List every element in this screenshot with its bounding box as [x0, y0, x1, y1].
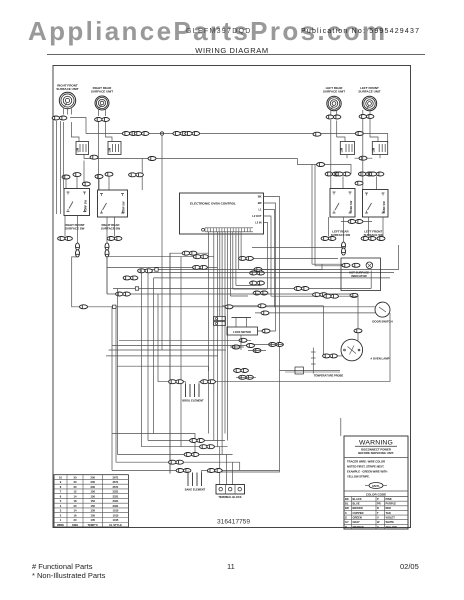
svg-text:BLUE: BLUE [353, 502, 360, 506]
svg-text:30: 30 [74, 475, 77, 479]
svg-text:SURFACE UNIT: SURFACE UNIT [323, 90, 345, 94]
svg-text:ORANGE: ORANGE [353, 525, 365, 529]
svg-text:C: C [345, 511, 347, 515]
svg-text:10: 10 [59, 475, 62, 479]
svg-text:3671: 3671 [112, 475, 118, 479]
svg-text:INDICATOR: INDICATOR [351, 274, 366, 278]
svg-text:8: 8 [60, 485, 62, 489]
svg-text:150: 150 [91, 490, 96, 494]
svg-text:105: 105 [91, 509, 96, 513]
svg-text:NOTED FIRST, STRIPE NEXT.: NOTED FIRST, STRIPE NEXT. [347, 465, 384, 469]
svg-text:O: O [345, 525, 347, 529]
svg-text:BK: BK [258, 195, 262, 199]
svg-text:GY: GY [345, 520, 349, 524]
svg-text:PINK: PINK [386, 497, 392, 501]
svg-text:9: 9 [60, 480, 62, 484]
svg-text:TEMP°C: TEMP°C [88, 523, 99, 527]
svg-text:WARNING: WARNING [359, 440, 393, 447]
svg-text:3321: 3321 [112, 499, 118, 503]
svg-text:1015: 1015 [112, 518, 118, 522]
svg-text:PURPLE: PURPLE [386, 502, 397, 506]
svg-text:BROWN: BROWN [353, 506, 363, 510]
svg-text:L1: L1 [258, 208, 262, 212]
svg-text:TERMINAL BLOCK: TERMINAL BLOCK [218, 495, 241, 499]
svg-text:BR: BR [345, 506, 349, 510]
svg-text:L2 OUT: L2 OUT [252, 214, 262, 218]
svg-text:TEMPERATURE PROBE: TEMPERATURE PROBE [314, 374, 344, 378]
svg-text:SURFACE UNIT: SURFACE UNIT [91, 90, 113, 94]
svg-text:SURFACE SW: SURFACE SW [101, 227, 121, 231]
svg-text:16: 16 [74, 513, 77, 517]
svg-text:3671: 3671 [112, 485, 118, 489]
svg-text:SURFACE SW: SURFACE SW [65, 227, 85, 231]
svg-text:UL STYLE: UL STYLE [109, 523, 122, 527]
svg-text:V: V [377, 516, 379, 520]
svg-text:G: G [345, 516, 347, 520]
svg-text:GN/YL: GN/YL [372, 484, 380, 488]
svg-text:GRAY: GRAY [353, 520, 361, 524]
svg-text:Y: Y [377, 525, 379, 529]
svg-text:20: 20 [74, 504, 77, 508]
svg-text:30: 30 [74, 480, 77, 484]
svg-text:200: 200 [91, 475, 96, 479]
svg-text:3321: 3321 [112, 504, 118, 508]
svg-text:30: 30 [74, 485, 77, 489]
svg-text:COLOR CODE: COLOR CODE [366, 492, 386, 496]
svg-text:R: R [377, 506, 379, 510]
svg-text:3321: 3321 [112, 494, 118, 498]
svg-text:3321: 3321 [112, 490, 118, 494]
svg-text:6: 6 [60, 494, 62, 498]
svg-text:SURF SW: SURF SW [122, 201, 126, 214]
svg-text:SURFACE UNIT: SURFACE UNIT [56, 87, 78, 91]
svg-text:12: 12 [74, 490, 77, 494]
svg-text:TAN: TAN [386, 511, 391, 515]
svg-text:SURF SW: SURF SW [349, 200, 353, 213]
svg-text:150: 150 [91, 504, 96, 508]
svg-text:4: 4 [60, 504, 62, 508]
svg-text:1015: 1015 [112, 509, 118, 513]
svg-text:# OVEN LAMP: # OVEN LAMP [371, 357, 390, 361]
svg-text:150: 150 [91, 499, 96, 503]
svg-text:LIM: LIM [107, 148, 111, 152]
svg-text:AWG: AWG [72, 523, 78, 527]
svg-text:SURF SW: SURF SW [382, 201, 386, 214]
svg-text:105: 105 [91, 518, 96, 522]
svg-text:SURFACE UNIT: SURFACE UNIT [358, 90, 380, 94]
svg-text:20: 20 [74, 518, 77, 522]
svg-text:EXAMPLE - GREEN WIRE WITH: EXAMPLE - GREEN WIRE WITH [347, 470, 387, 474]
svg-text:RED: RED [386, 506, 392, 510]
svg-text:PR: PR [377, 502, 381, 506]
svg-text:18: 18 [74, 499, 77, 503]
svg-text:TRACER WIRE: WIRE COLOR: TRACER WIRE: WIRE COLOR [347, 460, 385, 464]
svg-text:3671: 3671 [112, 480, 118, 484]
svg-text:WHITE: WHITE [386, 520, 395, 524]
svg-text:3: 3 [60, 509, 62, 513]
svg-text:LIM: LIM [75, 148, 79, 152]
svg-text:WIRE: WIRE [57, 523, 64, 527]
svg-text:BLACK: BLACK [353, 497, 362, 501]
svg-text:14: 14 [74, 509, 77, 513]
svg-text:YELLOW STRIPE.: YELLOW STRIPE. [347, 475, 370, 479]
svg-text:150: 150 [91, 494, 96, 498]
svg-text:ELECTRONIC OVEN CONTROL: ELECTRONIC OVEN CONTROL [190, 202, 236, 206]
svg-text:P: P [377, 497, 379, 501]
svg-text:BAKE ELEMENT: BAKE ELEMENT [185, 488, 206, 492]
svg-text:316417759: 316417759 [217, 518, 250, 525]
svg-text:L2 IN: L2 IN [255, 221, 261, 225]
svg-text:105: 105 [91, 513, 96, 517]
svg-text:7: 7 [60, 490, 62, 494]
svg-text:SURF SW: SURF SW [84, 199, 88, 212]
svg-text:BROIL ELEMENT: BROIL ELEMENT [182, 399, 204, 403]
svg-text:14: 14 [74, 494, 77, 498]
svg-text:LIM: LIM [340, 148, 344, 152]
svg-text:W: W [377, 520, 380, 524]
svg-text:GREEN: GREEN [353, 516, 362, 520]
svg-text:5: 5 [60, 499, 62, 503]
svg-text:BR: BR [258, 201, 262, 205]
svg-text:T: T [377, 511, 379, 515]
svg-text:VIOLET: VIOLET [386, 516, 396, 520]
svg-text:200: 200 [91, 485, 96, 489]
svg-text:BK: BK [345, 497, 349, 501]
svg-text:2: 2 [60, 513, 62, 517]
svg-text:DOOR SWITCH: DOOR SWITCH [372, 319, 392, 323]
svg-text:BL: BL [345, 502, 349, 506]
svg-text:1015: 1015 [112, 513, 118, 517]
svg-text:BEFORE SERVICING UNIT.: BEFORE SERVICING UNIT. [358, 451, 394, 455]
svg-text:YELLOW: YELLOW [386, 525, 398, 529]
svg-text:LOCK MOTOR: LOCK MOTOR [233, 330, 251, 334]
svg-text:200: 200 [91, 480, 96, 484]
svg-text:LIM: LIM [372, 148, 376, 152]
svg-text:1: 1 [60, 518, 62, 522]
svg-text:COPPER: COPPER [353, 511, 364, 515]
